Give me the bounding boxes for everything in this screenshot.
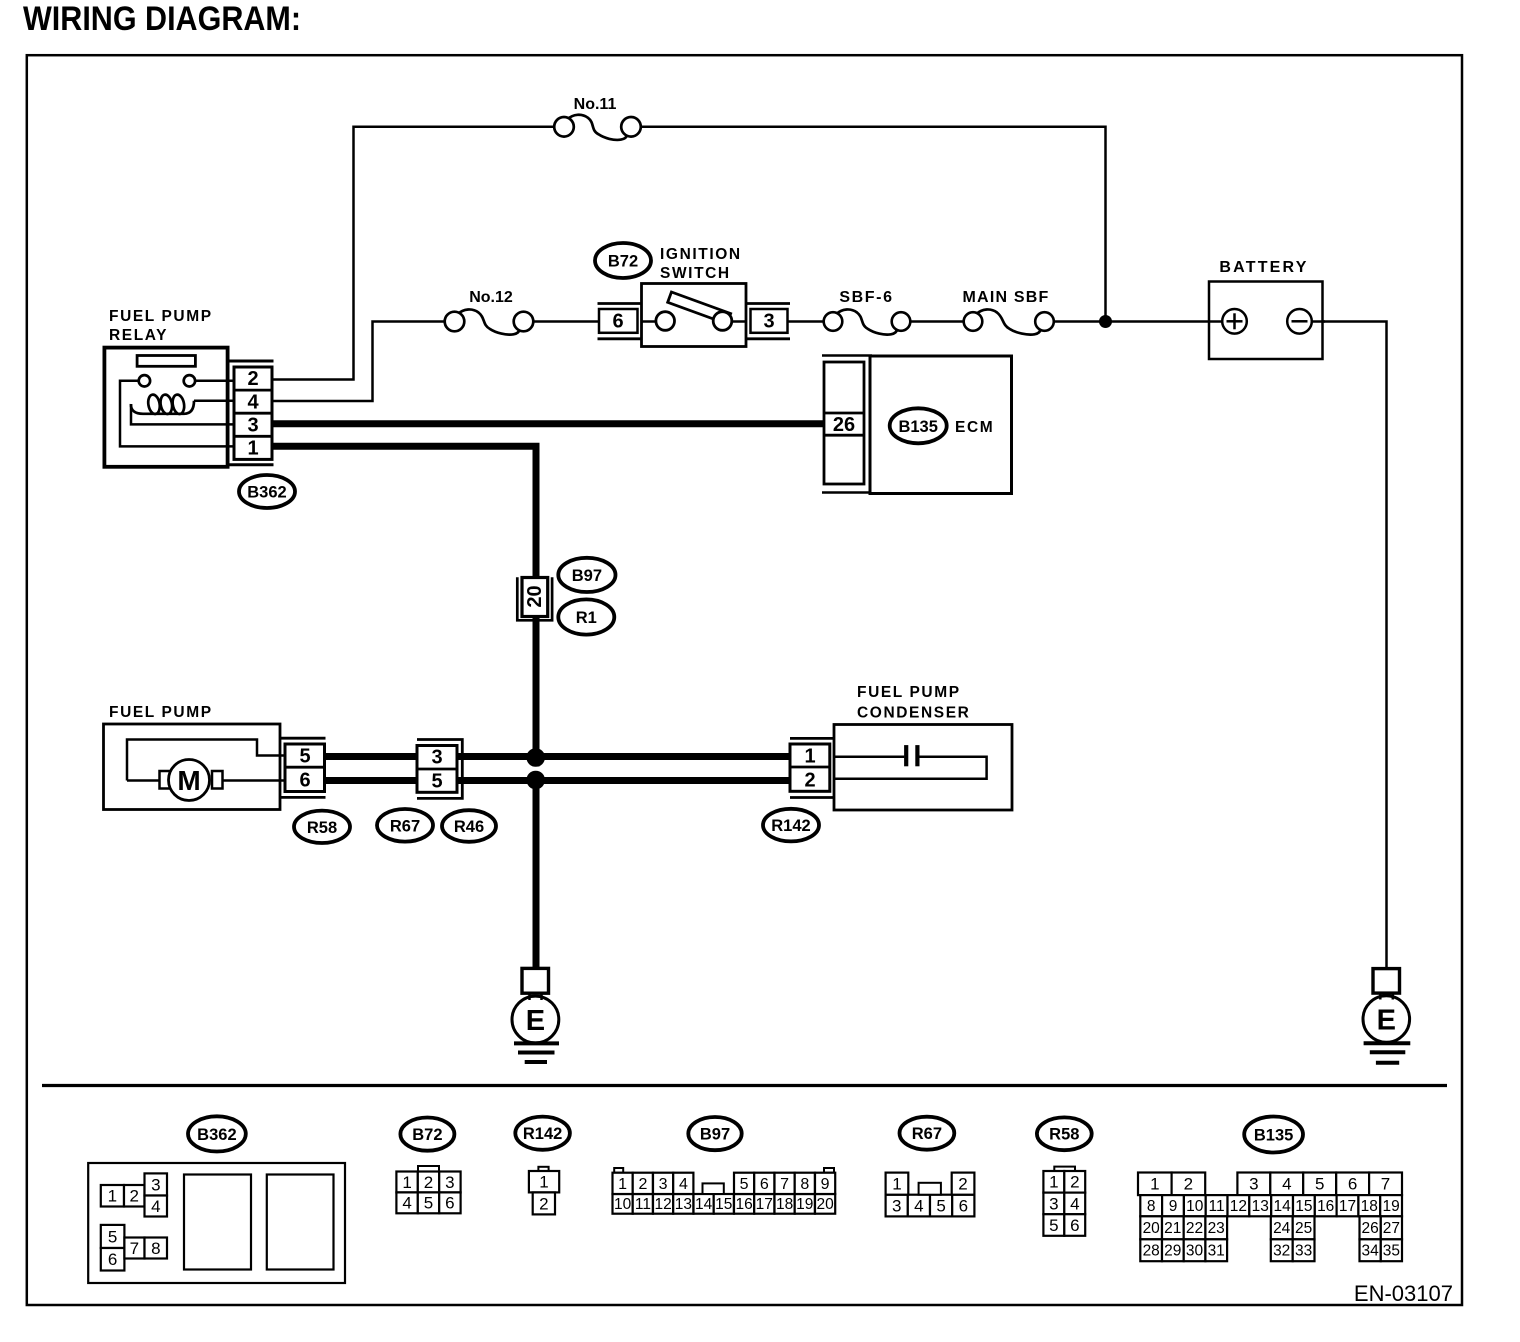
- connector R58 rails: [280, 737, 326, 740]
- fuse SBF-6: [824, 309, 911, 334]
- svg-text:2: 2: [129, 1187, 138, 1206]
- wire fuse SBF-6 to fuse MAIN SBF: [910, 320, 965, 323]
- svg-text:2: 2: [247, 368, 258, 390]
- connector B97/R1 pin 20 bracket: [517, 577, 552, 620]
- svg-text:R142: R142: [771, 817, 810, 835]
- fuse No.12: [445, 309, 534, 334]
- svg-text:5: 5: [299, 746, 310, 768]
- svg-text:17: 17: [756, 1196, 773, 1213]
- svg-text:19: 19: [1382, 1198, 1399, 1215]
- svg-text:B72: B72: [412, 1126, 442, 1144]
- svg-text:2: 2: [1184, 1175, 1193, 1194]
- center ground bars: [514, 1043, 559, 1062]
- svg-text:25: 25: [1295, 1220, 1312, 1237]
- svg-text:5: 5: [424, 1194, 433, 1213]
- connector R58 pin box: [285, 744, 325, 792]
- svg-text:6: 6: [299, 770, 310, 792]
- svg-text:3: 3: [247, 415, 258, 437]
- svg-text:11: 11: [1209, 1198, 1225, 1215]
- right ground connector box: [1373, 969, 1400, 994]
- svg-text:14: 14: [695, 1196, 713, 1213]
- ECM bracket: [822, 354, 872, 357]
- svg-text:27: 27: [1383, 1220, 1400, 1237]
- svg-text:1: 1: [247, 438, 258, 460]
- svg-text:4: 4: [1070, 1194, 1079, 1213]
- svg-text:17: 17: [1339, 1198, 1356, 1215]
- svg-text:R58: R58: [307, 819, 337, 837]
- svg-text:3: 3: [151, 1175, 160, 1194]
- svg-text:EN-03107: EN-03107: [1354, 1281, 1453, 1306]
- relay internal wires: [120, 381, 234, 447]
- svg-text:2: 2: [424, 1173, 433, 1192]
- svg-text:CONDENSER: CONDENSER: [857, 705, 970, 722]
- legend connector R58: [1037, 1117, 1092, 1150]
- right ground bars: [1364, 1043, 1411, 1063]
- svg-text:13: 13: [675, 1196, 692, 1213]
- fuse MAIN SBF: [964, 309, 1054, 334]
- wire fuse No.11 to battery junction: [640, 127, 1106, 322]
- svg-text:13: 13: [1252, 1198, 1269, 1215]
- svg-text:34: 34: [1361, 1243, 1379, 1260]
- svg-text:4: 4: [151, 1197, 160, 1216]
- fuel pump relay box: [104, 348, 227, 467]
- R67 ellipse label: [377, 809, 433, 842]
- svg-text:B135: B135: [1254, 1126, 1293, 1144]
- svg-text:24: 24: [1273, 1220, 1291, 1237]
- ignition switch contacts and lever: [642, 292, 747, 330]
- junction node upper on vertical wire: [526, 748, 545, 767]
- R1 ellipse label: [558, 599, 614, 634]
- svg-text:6: 6: [760, 1176, 769, 1193]
- svg-text:R1: R1: [576, 609, 597, 627]
- svg-text:1: 1: [402, 1173, 411, 1192]
- svg-text:6: 6: [108, 1250, 117, 1269]
- svg-text:No.12: No.12: [469, 289, 513, 306]
- svg-text:2: 2: [1070, 1173, 1079, 1192]
- connector R67/R46 bracket: [417, 740, 462, 799]
- svg-text:7: 7: [130, 1239, 139, 1258]
- R58 ellipse label: [294, 811, 350, 843]
- connector R142 rails: [790, 737, 834, 740]
- svg-text:15: 15: [1295, 1198, 1312, 1215]
- svg-text:16: 16: [1317, 1198, 1334, 1215]
- svg-text:5: 5: [108, 1227, 117, 1246]
- svg-text:1: 1: [892, 1175, 901, 1194]
- relay contact points: [139, 375, 150, 386]
- svg-text:FUEL PUMP: FUEL PUMP: [857, 684, 961, 701]
- svg-text:2: 2: [804, 770, 815, 792]
- R46 ellipse label: [442, 810, 496, 842]
- svg-text:E: E: [526, 1005, 545, 1037]
- svg-text:IGNITION: IGNITION: [660, 246, 742, 263]
- B97 ellipse label: [558, 558, 615, 592]
- svg-text:33: 33: [1295, 1243, 1312, 1260]
- svg-text:4: 4: [914, 1196, 923, 1215]
- svg-text:2: 2: [539, 1194, 548, 1213]
- svg-text:7: 7: [780, 1176, 789, 1193]
- ECM box B135: [870, 356, 1012, 494]
- svg-text:7: 7: [1381, 1175, 1390, 1194]
- svg-text:6: 6: [445, 1194, 454, 1213]
- svg-text:R46: R46: [454, 818, 484, 836]
- svg-text:2: 2: [958, 1175, 967, 1194]
- svg-text:SWITCH: SWITCH: [660, 265, 731, 282]
- connector B97/R1 pin 20 box: [522, 578, 548, 617]
- svg-text:30: 30: [1186, 1243, 1204, 1260]
- svg-text:5: 5: [431, 771, 442, 793]
- thick wire pump pin6 to condenser pin2: [325, 777, 791, 784]
- svg-text:1: 1: [108, 1187, 117, 1206]
- svg-text:11: 11: [635, 1196, 651, 1213]
- svg-text:8: 8: [151, 1239, 160, 1258]
- ignition switch B72 box: [642, 284, 747, 347]
- svg-text:3: 3: [431, 747, 442, 769]
- connector R67/R46 pin box: [417, 746, 457, 793]
- svg-text:4: 4: [402, 1194, 411, 1213]
- fuel pump condenser box: [834, 725, 1012, 811]
- svg-text:R67: R67: [390, 817, 420, 835]
- svg-text:4: 4: [247, 392, 259, 414]
- svg-text:1: 1: [539, 1173, 548, 1192]
- svg-text:14: 14: [1273, 1198, 1291, 1215]
- condenser capacitor: [834, 745, 987, 779]
- svg-text:10: 10: [1186, 1198, 1204, 1215]
- svg-text:ECM: ECM: [955, 419, 994, 436]
- svg-text:3: 3: [1249, 1175, 1258, 1194]
- thick wire relay pin1 down to ground: [272, 443, 540, 767]
- legend connector B97: [688, 1117, 741, 1150]
- svg-text:FUEL PUMP: FUEL PUMP: [109, 308, 213, 325]
- svg-text:No.11: No.11: [574, 96, 617, 113]
- svg-text:6: 6: [1348, 1175, 1357, 1194]
- wire fuse No.12 to ignition switch pin6: [533, 320, 600, 323]
- svg-text:21: 21: [1164, 1220, 1181, 1237]
- svg-text:1: 1: [618, 1176, 627, 1193]
- svg-text:5: 5: [740, 1176, 749, 1193]
- wire battery minus to right ground: [1322, 322, 1387, 968]
- svg-text:22: 22: [1186, 1220, 1203, 1237]
- svg-text:19: 19: [796, 1196, 813, 1213]
- svg-text:20: 20: [1143, 1220, 1161, 1237]
- svg-text:6: 6: [959, 1196, 968, 1215]
- svg-text:23: 23: [1208, 1220, 1225, 1237]
- svg-text:4: 4: [679, 1176, 688, 1193]
- svg-text:3: 3: [763, 311, 774, 333]
- svg-text:M: M: [177, 765, 200, 796]
- junction node lower on vertical wire: [526, 771, 545, 790]
- svg-text:26: 26: [1361, 1220, 1378, 1237]
- svg-text:5: 5: [936, 1196, 945, 1215]
- svg-text:1: 1: [804, 746, 815, 768]
- wire fuse MAIN SBF to battery plus: [1053, 320, 1209, 323]
- svg-text:B97: B97: [700, 1126, 730, 1144]
- wire ignition switch pin3 to fuse SBF-6: [789, 320, 825, 323]
- svg-text:9: 9: [821, 1176, 830, 1193]
- svg-text:29: 29: [1164, 1243, 1181, 1260]
- svg-text:2: 2: [638, 1176, 647, 1193]
- svg-text:3: 3: [445, 1173, 454, 1192]
- svg-text:12: 12: [654, 1196, 671, 1213]
- wire relay pin2 up to fuse No.11: [272, 127, 556, 380]
- fuel pump box: [104, 724, 281, 810]
- svg-text:5: 5: [1315, 1175, 1324, 1194]
- svg-text:RELAY: RELAY: [109, 327, 168, 344]
- B72 ellipse label: [595, 243, 651, 278]
- right ground neck: [1363, 996, 1410, 1043]
- legend connector B135: [1244, 1117, 1303, 1153]
- battery minus terminal: [1287, 309, 1312, 334]
- svg-text:3: 3: [892, 1196, 901, 1215]
- svg-text:1: 1: [1049, 1173, 1058, 1192]
- battery plus terminal: [1222, 309, 1247, 334]
- svg-text:31: 31: [1208, 1243, 1225, 1260]
- legend connector B362: [188, 1116, 246, 1151]
- svg-text:26: 26: [833, 414, 855, 436]
- thick wire pump pin5 to condenser pin1: [325, 753, 791, 760]
- svg-text:4: 4: [1282, 1175, 1291, 1194]
- svg-text:BATTERY: BATTERY: [1219, 259, 1308, 276]
- svg-text:18: 18: [1361, 1198, 1378, 1215]
- B135 ellipse label: [890, 408, 947, 443]
- legend connector R142: [515, 1117, 570, 1150]
- legend separator line: [42, 1084, 1447, 1087]
- svg-text:3: 3: [1049, 1194, 1058, 1213]
- B362 ellipse label: [239, 475, 295, 508]
- svg-text:6: 6: [612, 311, 623, 333]
- svg-text:B362: B362: [247, 484, 286, 502]
- svg-text:5: 5: [1049, 1216, 1058, 1235]
- svg-text:1: 1: [1150, 1175, 1159, 1194]
- svg-text:8: 8: [800, 1176, 809, 1193]
- junction node at battery feed: [1099, 315, 1112, 328]
- svg-text:16: 16: [735, 1196, 752, 1213]
- svg-text:MAIN SBF: MAIN SBF: [963, 289, 1050, 306]
- wire relay pin4 up to fuse No.12: [272, 322, 446, 402]
- relay contact bar: [137, 356, 195, 367]
- thick wire relay pin3 to ECM pin26: [272, 420, 824, 427]
- connector R142 pin box: [790, 744, 830, 791]
- svg-text:8: 8: [1147, 1198, 1156, 1215]
- svg-text:B135: B135: [898, 418, 937, 436]
- center ground neck: [512, 996, 559, 1043]
- legend connector B72: [400, 1118, 454, 1151]
- relay coil: [131, 394, 194, 415]
- ignition switch pin 3: [746, 304, 790, 339]
- center ground connector box: [522, 968, 549, 993]
- relay connector strip B362: [229, 361, 274, 465]
- svg-text:3: 3: [659, 1176, 668, 1193]
- svg-text:35: 35: [1383, 1243, 1400, 1260]
- fuel pump motor M: [160, 760, 223, 801]
- svg-text:12: 12: [1230, 1198, 1247, 1215]
- svg-text:20: 20: [816, 1196, 834, 1213]
- svg-text:32: 32: [1273, 1243, 1290, 1260]
- svg-text:R58: R58: [1049, 1126, 1079, 1144]
- svg-text:E: E: [1377, 1005, 1396, 1037]
- svg-text:10: 10: [614, 1196, 632, 1213]
- ECM connector strip: [824, 362, 864, 484]
- fuel pump internal wires: [127, 740, 287, 781]
- svg-text:28: 28: [1143, 1243, 1160, 1260]
- svg-text:18: 18: [776, 1196, 793, 1213]
- svg-text:20: 20: [524, 585, 546, 607]
- svg-text:9: 9: [1169, 1198, 1178, 1215]
- svg-text:WIRING DIAGRAM:: WIRING DIAGRAM:: [23, 0, 301, 38]
- svg-text:B362: B362: [197, 1126, 236, 1144]
- svg-text:R67: R67: [912, 1125, 942, 1143]
- svg-text:B72: B72: [608, 253, 638, 271]
- svg-text:FUEL PUMP: FUEL PUMP: [109, 704, 213, 721]
- fuse No.11: [554, 115, 641, 140]
- svg-text:6: 6: [1070, 1216, 1079, 1235]
- R142 ellipse label: [763, 809, 819, 842]
- svg-text:SBF-6: SBF-6: [839, 289, 893, 306]
- svg-text:15: 15: [715, 1196, 732, 1213]
- svg-text:R142: R142: [523, 1125, 562, 1143]
- legend connector R67: [900, 1117, 955, 1150]
- ignition switch pin 6: [598, 304, 642, 339]
- svg-text:B97: B97: [572, 567, 602, 585]
